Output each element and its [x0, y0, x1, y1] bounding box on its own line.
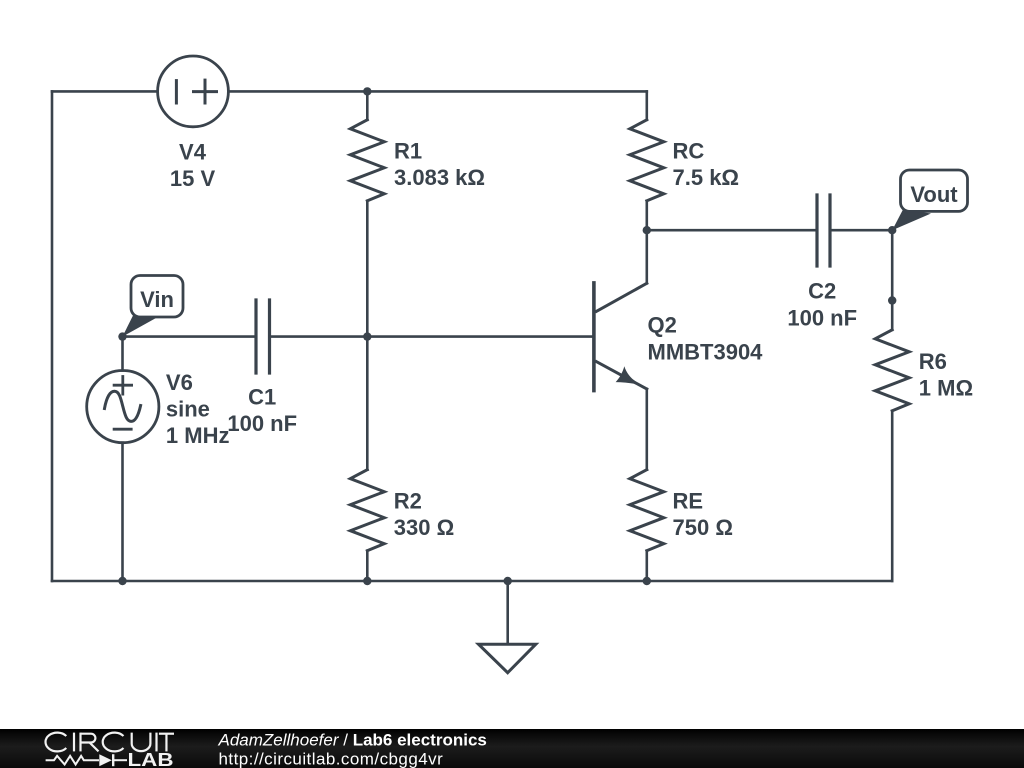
svg-text:Vin: Vin [140, 287, 174, 312]
svg-text:1 MHz: 1 MHz [166, 423, 230, 448]
voltage source V6 circle [87, 371, 159, 443]
wire C1 to base [270, 335, 594, 338]
svg-text:C1: C1 [248, 385, 276, 410]
svg-text:RC: RC [673, 139, 705, 164]
node dot Vin [118, 332, 126, 340]
svg-text:LAB: LAB [128, 750, 174, 768]
wire top rail V4 to RC [228, 90, 646, 93]
node dot Vout [888, 226, 896, 234]
resistor R6 [875, 330, 909, 411]
svg-text:100 nF: 100 nF [787, 306, 857, 331]
node dot top rail / R1 [363, 87, 371, 95]
V4 minus terminal bar [175, 81, 178, 103]
wire R1 bottom lead [366, 201, 369, 337]
svg-text:C2: C2 [808, 279, 836, 304]
wire Vout node down to R6 [891, 230, 894, 330]
wire V6 top lead [121, 337, 124, 371]
wire RC top lead [645, 91, 648, 119]
wire R6 bottom lead to bottom rail [891, 411, 894, 581]
svg-text:MMBT3904: MMBT3904 [648, 340, 764, 365]
wire RC bottom lead to collector node [645, 201, 648, 230]
wire bottom rail [52, 580, 892, 583]
node dot bottom R2 [363, 577, 371, 585]
transistor Q2 collector wire [645, 230, 648, 283]
logo diode triangle [99, 754, 112, 766]
svg-text:15 V: 15 V [170, 166, 216, 191]
transistor Q2 emitter diagonal [597, 362, 647, 389]
ground stem [506, 581, 509, 644]
wire V6 bottom lead [121, 443, 124, 581]
svg-text:R1: R1 [394, 139, 422, 164]
wire C2 to Vout node [830, 229, 892, 232]
flag Vin [123, 276, 184, 337]
svg-text:Q2: Q2 [648, 313, 677, 338]
V6 minus sign [114, 428, 131, 431]
transistor Q2 base bar [592, 283, 596, 391]
svg-text:http://circuitlab.com/cbgg4vr: http://circuitlab.com/cbgg4vr [219, 749, 444, 768]
wire R2 bottom lead [366, 551, 369, 581]
wire R1 top lead [366, 91, 369, 119]
wire left rail [51, 91, 54, 581]
resistor R2 [350, 470, 384, 551]
node dot bottom ground [504, 577, 512, 585]
wire top rail left of V4 [52, 90, 158, 93]
svg-text:330 Ω: 330 Ω [394, 515, 454, 540]
flag Vout [892, 170, 967, 230]
ground triangle [479, 644, 536, 673]
svg-text:AdamZellhoefer / Lab6 electron: AdamZellhoefer / Lab6 electronics [218, 730, 487, 749]
wire collector node to C2 [647, 229, 817, 232]
capacitor C2 [817, 195, 830, 266]
wire Q2 emitter lead [645, 389, 648, 470]
voltage source V4 circle [158, 56, 229, 127]
svg-text:V6: V6 [166, 370, 193, 395]
capacitor C1 [256, 300, 270, 373]
node dot bottom RE [643, 577, 651, 585]
svg-text:R6: R6 [919, 349, 947, 374]
resistor RE [630, 470, 664, 551]
wire mid input rail Vin to C1 [123, 335, 257, 338]
node dot base rail / R1 R2 [363, 332, 371, 340]
resistor R1 [350, 120, 384, 201]
node dot bottom V6 [118, 577, 126, 585]
logo resistor squiggle and diode [46, 754, 127, 766]
svg-text:1 MΩ: 1 MΩ [919, 375, 973, 400]
svg-text:RE: RE [673, 489, 704, 514]
V6 sine wave [105, 391, 141, 421]
svg-text:R2: R2 [394, 489, 422, 514]
V4 plus sign [194, 80, 217, 103]
logo CIRCUIT drawn glyphs [46, 733, 174, 752]
svg-text:3.083 kΩ: 3.083 kΩ [394, 165, 485, 190]
svg-text:7.5 kΩ: 7.5 kΩ [673, 165, 740, 190]
svg-text:V4: V4 [179, 139, 207, 164]
wire R2 top lead [366, 337, 369, 470]
svg-text:sine: sine [166, 396, 210, 421]
transistor Q2 emitter arrow [616, 366, 643, 385]
transistor Q2 collector diagonal [597, 283, 647, 311]
V6 plus sign [114, 377, 132, 395]
svg-text:Vout: Vout [910, 182, 958, 207]
resistor RC [630, 120, 664, 201]
node dot R6 top [888, 296, 896, 304]
svg-text:100 nF: 100 nF [227, 411, 297, 436]
node dot collector [643, 226, 651, 234]
wire RE bottom lead [645, 551, 648, 581]
svg-text:750 Ω: 750 Ω [673, 515, 733, 540]
